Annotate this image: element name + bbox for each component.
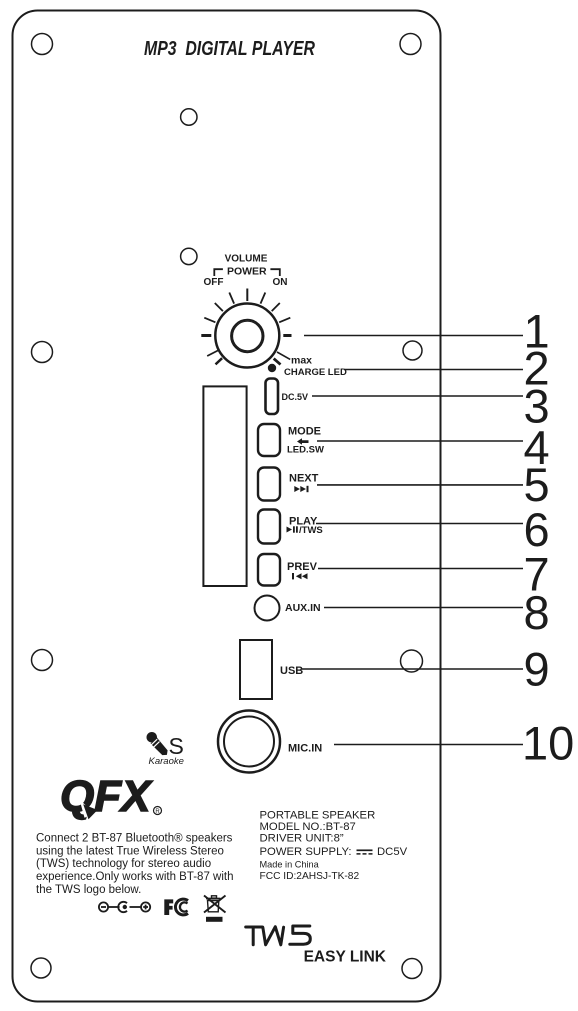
svg-text:/TWS: /TWS xyxy=(299,525,323,536)
svg-text:CHARGE LED: CHARGE LED xyxy=(284,367,347,378)
svg-text:Connect 2 BT-87 Bluetooth® spe: Connect 2 BT-87 Bluetooth® speakers xyxy=(36,833,233,845)
svg-text:experience.Only works with BT-: experience.Only works with BT-87 with xyxy=(36,871,234,883)
svg-text:OFF: OFF xyxy=(204,277,224,288)
svg-text:FCC ID:2AHSJ-TK-82: FCC ID:2AHSJ-TK-82 xyxy=(260,871,360,882)
svg-text:MODEL NO.:BT-87: MODEL NO.:BT-87 xyxy=(260,821,356,833)
svg-text:DRIVER UNIT:8”: DRIVER UNIT:8” xyxy=(260,832,344,844)
svg-text:ON: ON xyxy=(273,277,288,288)
svg-text:PORTABLE SPEAKER: PORTABLE SPEAKER xyxy=(260,809,376,821)
svg-text:Made in China: Made in China xyxy=(260,859,320,869)
svg-text:(TWS) technology for stereo au: (TWS) technology for stereo audio xyxy=(36,858,211,870)
svg-text:10: 10 xyxy=(522,717,574,770)
svg-text:max: max xyxy=(291,355,312,367)
svg-text:PREV: PREV xyxy=(287,561,318,573)
svg-text:DC5V: DC5V xyxy=(377,846,408,858)
svg-text:USB: USB xyxy=(280,665,303,677)
svg-text:AUX.IN: AUX.IN xyxy=(285,602,321,614)
svg-text:QFX: QFX xyxy=(60,772,153,821)
svg-text:Karaoke: Karaoke xyxy=(149,756,184,767)
svg-text:9: 9 xyxy=(524,643,550,696)
svg-text:POWER: POWER xyxy=(227,266,267,278)
svg-text:the TWS logo below.: the TWS logo below. xyxy=(36,884,141,896)
svg-text:using the latest True Wireless: using the latest True Wireless Stereo xyxy=(36,845,224,857)
svg-text:LED.SW: LED.SW xyxy=(287,445,324,456)
svg-text:EASY LINK: EASY LINK xyxy=(304,949,387,966)
svg-text:POWER SUPPLY:: POWER SUPPLY: xyxy=(260,846,352,858)
svg-text:MP3 DIGITAL PLAYER: MP3 DIGITAL PLAYER xyxy=(144,37,315,60)
svg-text:MODE: MODE xyxy=(288,426,321,438)
svg-text:DC.5V: DC.5V xyxy=(282,392,309,402)
svg-text:VOLUME: VOLUME xyxy=(225,254,268,265)
svg-text:R: R xyxy=(155,809,160,815)
svg-text:NEXT: NEXT xyxy=(289,473,319,485)
svg-text:MIC.IN: MIC.IN xyxy=(288,743,322,755)
svg-text:8: 8 xyxy=(524,586,550,639)
